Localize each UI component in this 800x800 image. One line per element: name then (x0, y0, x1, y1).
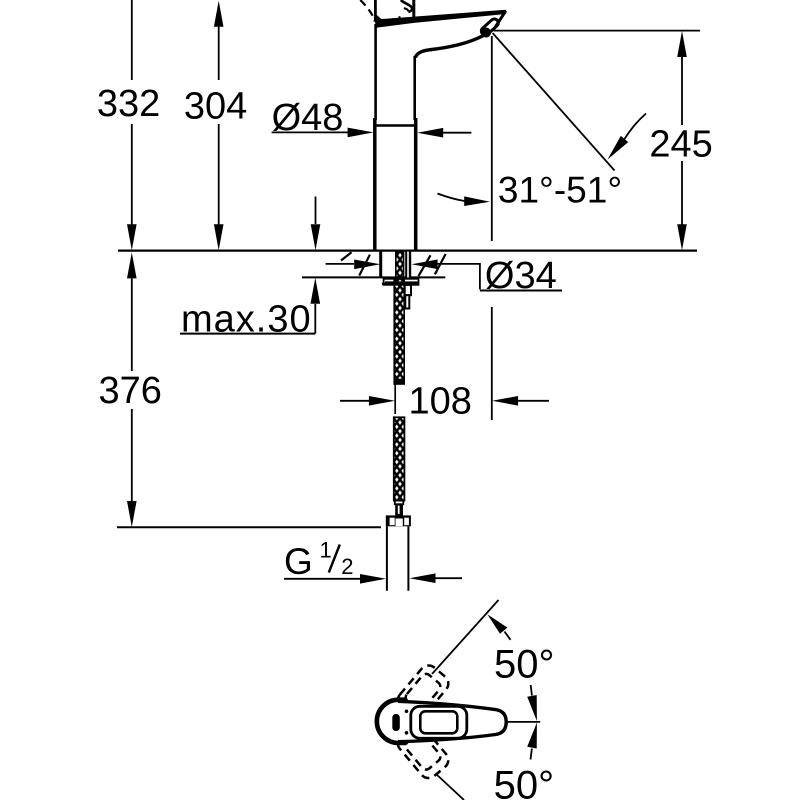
Ø34 arrows (326, 260, 480, 290)
stream angle diagonal line (493, 33, 615, 171)
faucet handle front view notch curve (401, 0, 412, 12)
angular arrow on upper diagonal (487, 614, 510, 640)
G1/2 threaded tube (387, 526, 409, 591)
hose end collar (395, 501, 404, 505)
angular hourglass arrows at centerline (527, 685, 537, 760)
376 bottom reference line (117, 526, 381, 528)
G1/2 hex fitting (386, 515, 411, 526)
counter top line (118, 250, 697, 252)
aerator at spout tip (479, 17, 502, 39)
leader arrow for 245 (608, 114, 647, 160)
svg-text:332: 332 (97, 83, 160, 125)
top view pivot bar (392, 714, 400, 731)
faucet body right edge (413, 56, 416, 120)
max.30 dimension lower arrow (311, 278, 321, 334)
leader arrow for 31-51 (438, 194, 491, 207)
top view centerline (506, 721, 540, 723)
mounting nut dark band (385, 281, 419, 285)
flexible hose lower segment (394, 417, 405, 500)
svg-text:G: G (284, 541, 313, 582)
top view swing diagonal lower (436, 774, 465, 800)
svg-text:50°: 50° (494, 643, 555, 687)
mounting shank right edge with tube (405, 252, 411, 278)
dimension 245 vertical line (677, 31, 687, 250)
max.30 dimension upper line (311, 197, 321, 251)
svg-text:245: 245 (649, 124, 712, 166)
svg-text:2: 2 (341, 554, 353, 579)
dimension 376 vertical line (127, 252, 137, 527)
faucet handle dashed tilted position tip (404, 8, 409, 14)
svg-text:31°-51°: 31°-51° (498, 170, 622, 211)
faucet handle front view solid right edge (412, 0, 415, 19)
hose centerline in gap (394, 384, 396, 414)
dimension 108 arrows (340, 396, 549, 406)
top view swing diagonal upper (432, 600, 499, 674)
top view dots (405, 710, 409, 714)
spout outlet projection line upper (491, 36, 493, 241)
counter bottom line (302, 276, 445, 278)
faucet body left edge (374, 24, 377, 120)
mounting stud (405, 285, 411, 295)
svg-text:1: 1 (320, 538, 332, 563)
top view handle inset dashed upper (394, 662, 452, 722)
mounting washer under deck (384, 279, 419, 285)
svg-text:376: 376 (98, 370, 161, 412)
top view handle inset dashed lower (394, 721, 452, 781)
spout underside curve (415, 36, 483, 58)
G 1/2 dimension leader and arrows (284, 573, 462, 583)
G 1/2 label (284, 538, 353, 583)
spout top edge band left merge (374, 15, 382, 21)
spout outlet projection line lower (491, 307, 493, 420)
top view handle inset solid (411, 706, 467, 738)
faucet handle dashed tilted position bottom edge (387, 17, 401, 21)
dimension 304 vertical line (214, 1, 224, 250)
faucet body joint line (374, 124, 417, 127)
spout tip end face (493, 11, 506, 31)
dimension 245 top reference line (494, 30, 700, 32)
svg-text:108: 108 (409, 381, 472, 423)
hose connector block (395, 504, 403, 515)
faucet handle front view solid left edge (375, 0, 381, 21)
spout top edge band (374, 10, 505, 28)
faucet handle dashed tilted position left edge (360, 0, 374, 22)
counter hatching (341, 252, 446, 276)
dimension Ø48 leader and arrows (272, 128, 472, 138)
top view handle blade fill (398, 701, 506, 741)
top view handle blade outline (398, 701, 506, 741)
top view handle cap (377, 700, 404, 743)
mounting shank left edge (379, 251, 382, 278)
svg-text:304: 304 (184, 86, 247, 128)
flexible hose upper segment (394, 252, 405, 384)
svg-text:50°: 50° (494, 764, 554, 800)
dimension 332 vertical line (127, 0, 137, 250)
